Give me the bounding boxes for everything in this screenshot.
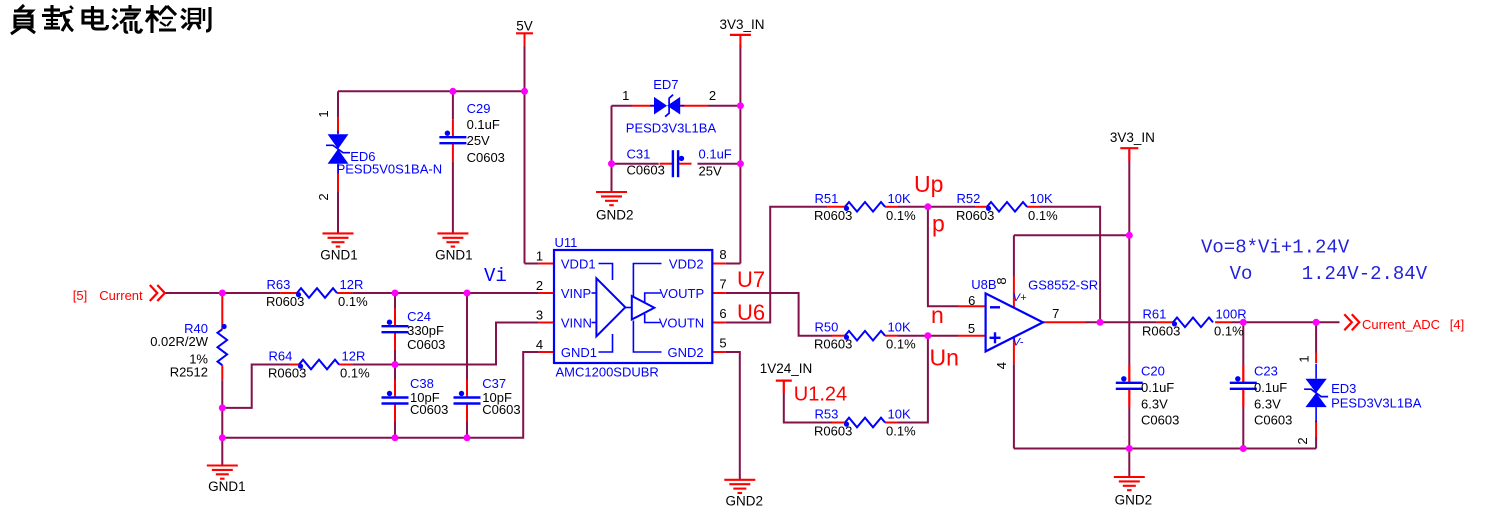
svg-text:330pF: 330pF <box>407 323 444 338</box>
svg-text:R0603: R0603 <box>814 424 852 439</box>
svg-text:GND2: GND2 <box>667 345 703 360</box>
svg-text:PESD5V0S1BA-N: PESD5V0S1BA-N <box>337 162 443 177</box>
svg-text:0.1%: 0.1% <box>1214 323 1244 338</box>
svg-text:1: 1 <box>316 110 331 117</box>
svg-text:C31: C31 <box>627 147 651 162</box>
svg-text:10K: 10K <box>888 191 911 206</box>
svg-text:2: 2 <box>536 278 543 293</box>
svg-text:R0603: R0603 <box>814 208 852 223</box>
svg-text:GS8552-SR: GS8552-SR <box>1028 277 1098 292</box>
svg-text:8: 8 <box>994 277 1009 284</box>
svg-text:VOUTP: VOUTP <box>659 286 704 301</box>
svg-text:0.1uF: 0.1uF <box>699 147 732 162</box>
svg-text:5: 5 <box>968 321 975 336</box>
svg-text:C24: C24 <box>407 309 431 324</box>
svg-text:PESD3V3L1BA: PESD3V3L1BA <box>626 121 717 136</box>
svg-text:6.3V: 6.3V <box>1254 396 1281 411</box>
svg-text:C0603: C0603 <box>1141 413 1179 428</box>
svg-text:C23: C23 <box>1254 363 1278 378</box>
svg-text:10K: 10K <box>1030 191 1053 206</box>
svg-text:Vi: Vi <box>484 265 507 287</box>
svg-text:R0603: R0603 <box>956 208 994 223</box>
svg-text:GND1: GND1 <box>561 345 597 360</box>
svg-text:5V: 5V <box>516 18 533 33</box>
svg-text:U7: U7 <box>737 267 765 292</box>
svg-text:U8B: U8B <box>971 277 996 292</box>
svg-text:12R: 12R <box>342 349 366 364</box>
svg-text:Vo: Vo <box>1230 263 1253 285</box>
svg-text:2: 2 <box>709 88 716 103</box>
svg-text:25V: 25V <box>699 163 722 178</box>
svg-text:V-: V- <box>1013 336 1024 348</box>
svg-text:1.24V-2.84V: 1.24V-2.84V <box>1302 263 1428 285</box>
svg-text:GND1: GND1 <box>208 479 246 494</box>
svg-text:GND1: GND1 <box>320 248 358 263</box>
svg-text:R63: R63 <box>267 277 291 292</box>
svg-text:VDD1: VDD1 <box>561 257 596 272</box>
svg-text:[5]: [5] <box>73 288 87 303</box>
svg-text:U1.24: U1.24 <box>794 383 847 405</box>
svg-text:0.1uF: 0.1uF <box>1254 380 1287 395</box>
svg-text:2: 2 <box>1295 437 1310 444</box>
svg-text:10K: 10K <box>888 407 911 422</box>
svg-text:6: 6 <box>968 293 975 308</box>
svg-text:1: 1 <box>1296 355 1311 362</box>
svg-text:4: 4 <box>994 362 1009 369</box>
svg-text:ED3: ED3 <box>1331 381 1356 396</box>
svg-text:1V24_IN: 1V24_IN <box>760 361 813 376</box>
svg-text:ED7: ED7 <box>653 77 678 92</box>
svg-text:3V3_IN: 3V3_IN <box>719 17 764 32</box>
svg-text:C0603: C0603 <box>1254 413 1292 428</box>
svg-text:C0603: C0603 <box>410 402 448 417</box>
svg-text:R51: R51 <box>815 191 839 206</box>
svg-text:8: 8 <box>719 247 726 262</box>
svg-text:R0603: R0603 <box>1142 323 1180 338</box>
svg-text:7: 7 <box>1052 306 1059 321</box>
svg-text:GND2: GND2 <box>596 208 634 223</box>
svg-text:4: 4 <box>536 337 543 352</box>
svg-text:U11: U11 <box>555 235 578 250</box>
svg-text:0.1%: 0.1% <box>886 424 916 439</box>
svg-text:3V3_IN: 3V3_IN <box>1110 130 1155 145</box>
svg-text:0.1%: 0.1% <box>886 208 916 223</box>
svg-text:R64: R64 <box>269 349 293 364</box>
svg-text:C0603: C0603 <box>627 163 665 178</box>
svg-text:100R: 100R <box>1216 306 1247 321</box>
svg-text:C0603: C0603 <box>407 337 445 352</box>
svg-text:3: 3 <box>536 308 543 323</box>
svg-text:10K: 10K <box>888 320 911 335</box>
svg-text:GND1: GND1 <box>435 248 473 263</box>
svg-text:0.1uF: 0.1uF <box>1141 380 1174 395</box>
svg-text:5: 5 <box>719 336 726 351</box>
svg-text:C0603: C0603 <box>482 402 520 417</box>
svg-text:Vo=8*Vi+1.24V: Vo=8*Vi+1.24V <box>1201 237 1350 259</box>
svg-text:0.1%: 0.1% <box>340 366 370 381</box>
svg-text:7: 7 <box>719 277 726 292</box>
svg-text:0.1%: 0.1% <box>886 337 916 352</box>
svg-text:R0603: R0603 <box>268 366 306 381</box>
svg-text:R2512: R2512 <box>170 365 208 380</box>
svg-text:C0603: C0603 <box>467 150 505 165</box>
svg-text:GND2: GND2 <box>1115 492 1153 507</box>
svg-text:Un: Un <box>930 345 959 371</box>
svg-text:PESD3V3L1BA: PESD3V3L1BA <box>1331 395 1422 410</box>
svg-text:U6: U6 <box>737 300 765 325</box>
svg-text:12R: 12R <box>340 277 364 292</box>
svg-text:0.1uF: 0.1uF <box>467 117 500 132</box>
svg-text:6: 6 <box>719 306 726 321</box>
svg-text:Current: Current <box>99 288 143 303</box>
svg-text:Up: Up <box>914 171 943 197</box>
svg-text:C29: C29 <box>467 101 491 116</box>
svg-text:2: 2 <box>316 193 331 200</box>
svg-text:R0603: R0603 <box>814 337 852 352</box>
svg-text:[4]: [4] <box>1450 317 1464 332</box>
svg-text:VINN: VINN <box>561 316 592 331</box>
svg-text:6.3V: 6.3V <box>1141 396 1168 411</box>
svg-text:VDD2: VDD2 <box>669 257 704 272</box>
svg-text:R50: R50 <box>815 320 839 335</box>
svg-text:1: 1 <box>622 88 629 103</box>
svg-text:R0603: R0603 <box>266 294 304 309</box>
svg-text:V+: V+ <box>1013 292 1027 304</box>
svg-text:25V: 25V <box>467 133 490 148</box>
svg-text:0.1%: 0.1% <box>1028 208 1058 223</box>
svg-text:VOUTN: VOUTN <box>659 316 705 331</box>
svg-text:R53: R53 <box>815 407 839 422</box>
svg-text:R61: R61 <box>1143 306 1167 321</box>
svg-text:1: 1 <box>536 249 543 264</box>
svg-text:p: p <box>932 211 945 237</box>
svg-text:0.1%: 0.1% <box>338 294 368 309</box>
svg-text:AMC1200SDUBR: AMC1200SDUBR <box>556 365 659 380</box>
svg-text:VINP: VINP <box>561 286 591 301</box>
svg-text:C20: C20 <box>1141 363 1165 378</box>
svg-text:R52: R52 <box>957 191 981 206</box>
svg-text:n: n <box>931 302 944 328</box>
svg-text:GND2: GND2 <box>726 494 764 509</box>
svg-text:0.02R/2W: 0.02R/2W <box>150 334 209 349</box>
svg-text:Current_ADC: Current_ADC <box>1362 317 1440 332</box>
